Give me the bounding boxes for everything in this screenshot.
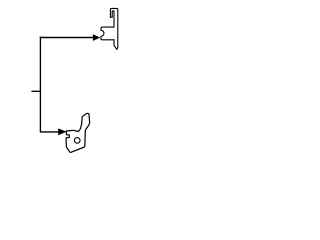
arrowhead to top clip <box>93 34 100 41</box>
wire leader vertical segment <box>39 37 41 132</box>
clip strip with top hook <box>110 8 117 49</box>
wire leader top horizontal segment <box>40 37 94 39</box>
clip flange with notch <box>101 27 115 40</box>
wire leader bottom horizontal segment <box>40 131 59 133</box>
wire tick mark <box>31 90 41 92</box>
arrowhead to bottom bracket <box>58 128 66 135</box>
bottom bracket outline <box>66 113 90 152</box>
bracket hole <box>74 138 80 144</box>
